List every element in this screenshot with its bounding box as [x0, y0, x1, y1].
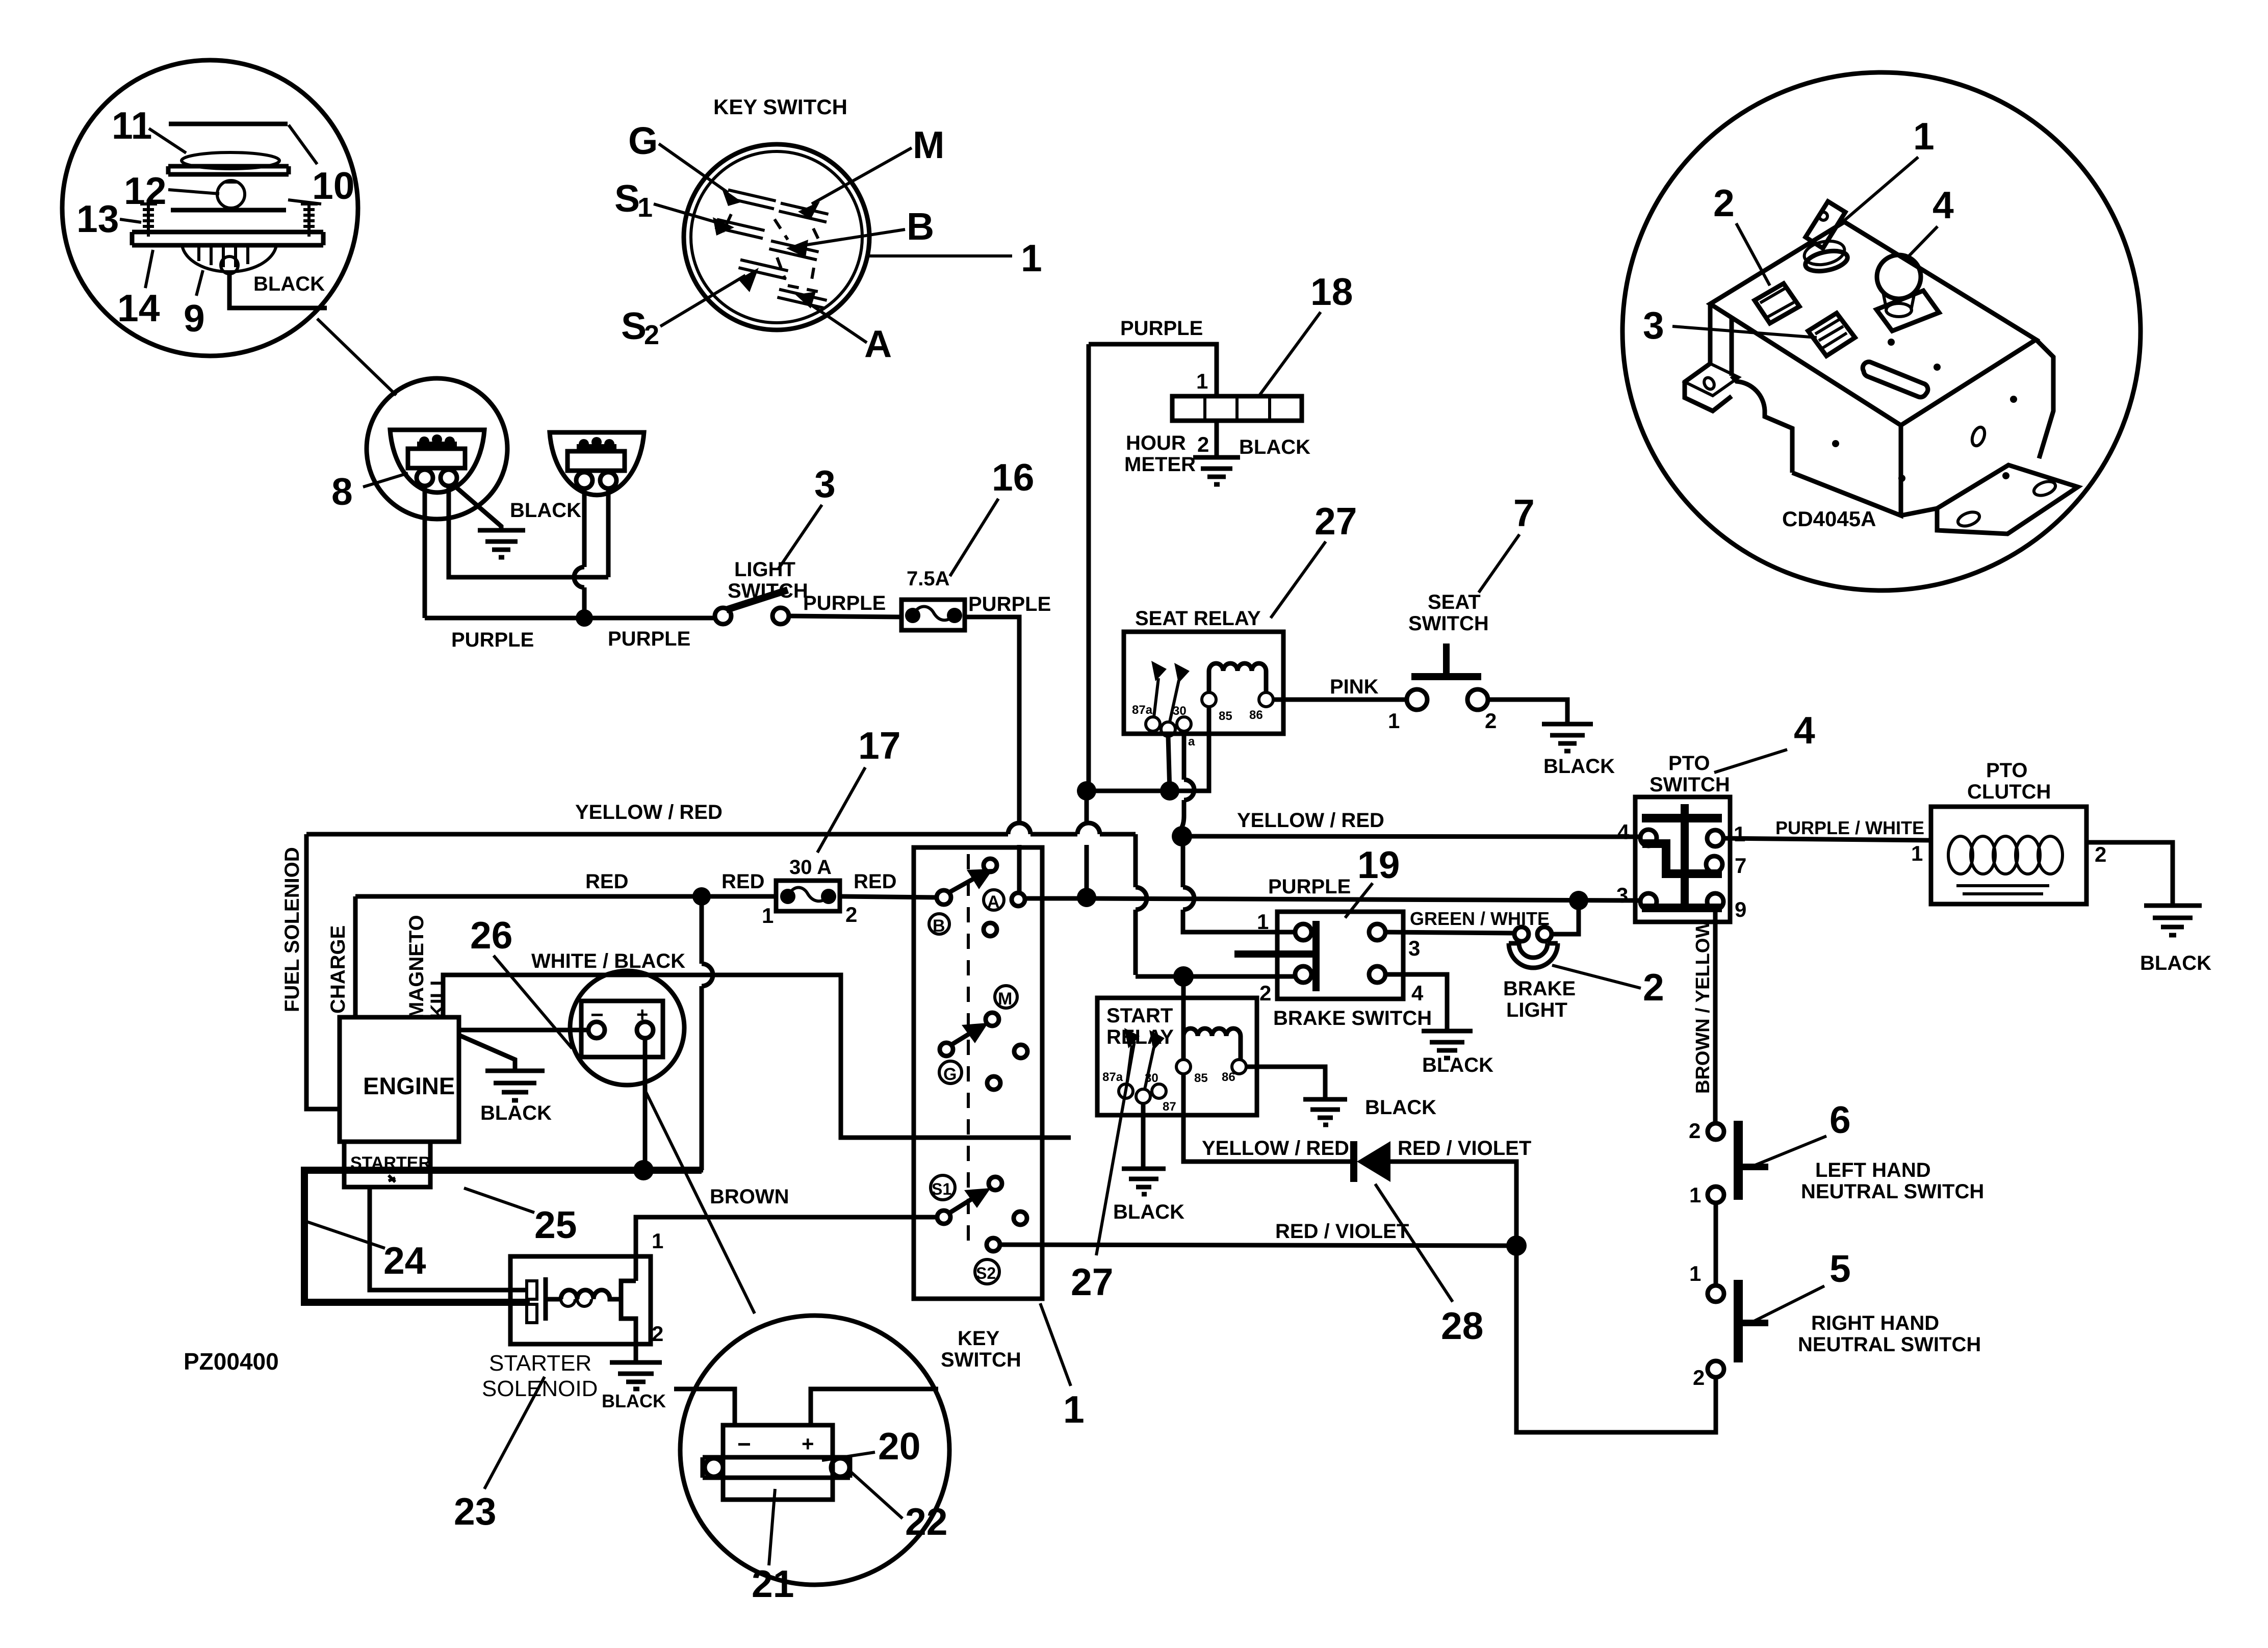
svg-text:86: 86 — [1222, 1070, 1235, 1084]
circled S1 — [931, 1175, 955, 1200]
svg-text:18: 18 — [1310, 270, 1353, 313]
svg-text:1: 1 — [1911, 841, 1923, 865]
circled B — [929, 914, 949, 934]
svg-text:BLACK: BLACK — [2140, 952, 2211, 974]
svg-text:4: 4 — [1411, 981, 1424, 1005]
svg-text:27: 27 — [1071, 1260, 1113, 1303]
wire brake light to purple dot — [1552, 900, 1579, 934]
circled M — [995, 986, 1017, 1008]
svg-text:30: 30 — [1173, 704, 1187, 718]
headlight 1 dome — [390, 430, 484, 493]
svg-text:PURPLE: PURPLE — [968, 593, 1051, 615]
svg-text:BROWN / YELLOW: BROWN / YELLOW — [1692, 920, 1714, 1094]
starter solenoid box — [510, 1256, 651, 1344]
fuse 17 (30 A) — [776, 881, 840, 911]
svg-text:10: 10 — [312, 164, 354, 207]
svg-text:87a: 87a — [1102, 1070, 1123, 1084]
svg-text:CLUTCH: CLUTCH — [1967, 781, 2051, 803]
svg-text:KEY: KEY — [958, 1327, 1000, 1350]
diode 28 — [1350, 1141, 1357, 1182]
junction purple / 85 — [1077, 781, 1096, 801]
seat relay coil terminals 85 86 — [1202, 692, 1216, 707]
svg-text:START: START — [1106, 1005, 1173, 1027]
wire diode to red/violet node — [1390, 1162, 1516, 1246]
headlight 2 terminals — [576, 472, 592, 488]
headlight 2 body — [568, 451, 625, 471]
svg-text:a: a — [1188, 735, 1195, 749]
svg-text:MAGNETO: MAGNETO — [405, 915, 428, 1019]
circled G — [939, 1061, 962, 1084]
circled A — [984, 890, 1004, 910]
svg-text:PURPLE: PURPLE — [1268, 875, 1351, 898]
svg-text:1: 1 — [1257, 910, 1269, 934]
red wire: charge to fuse 17 to key switch B — [355, 894, 776, 899]
svg-text:KILL: KILL — [427, 973, 449, 1019]
wire: headlight2 left terminal to junction (hops interconnect) — [574, 488, 584, 618]
contact right of S1 — [1014, 1212, 1027, 1225]
junction: bus east node — [1172, 826, 1192, 846]
svg-text:7: 7 — [1735, 854, 1746, 878]
red wire down from junction (hops white/black) — [702, 896, 713, 1170]
svg-text:2: 2 — [1485, 709, 1497, 733]
seat relay contacts 87a 30 — [1146, 717, 1160, 731]
PTO switch box 4 — [1635, 797, 1730, 922]
circle around headlight 8 — [367, 378, 507, 519]
console top face — [1710, 222, 2036, 425]
purple vertical (hour meter to A-line) — [1087, 344, 1089, 895]
svg-text:BROWN: BROWN — [710, 1186, 789, 1208]
svg-text:85: 85 — [1194, 1071, 1208, 1085]
brake switch plunger — [1312, 921, 1320, 991]
wire: fuse output down to key switch A — [965, 617, 1019, 893]
svg-text:SWITCH: SWITCH — [941, 1349, 1021, 1371]
svg-text:1: 1 — [1021, 237, 1042, 279]
fuse 16 (7.5A) — [901, 600, 965, 630]
console key — [1806, 201, 1845, 248]
contact right of M — [1014, 1045, 1027, 1058]
wire 86 to seat switch — [1273, 698, 1406, 702]
svg-text:25: 25 — [534, 1203, 577, 1246]
svg-text:RED: RED — [854, 870, 896, 893]
brake switch box 19 — [1277, 912, 1403, 999]
svg-text:1: 1 — [652, 1229, 663, 1253]
svg-text:BLACK: BLACK — [1239, 436, 1310, 458]
svg-text:SEAT: SEAT — [1428, 591, 1481, 613]
key switch internal divider — [914, 1136, 1071, 1140]
seat relay coil — [1209, 663, 1266, 692]
svg-text:85: 85 — [1219, 709, 1232, 723]
svg-text:S: S — [614, 177, 640, 220]
svg-text:B: B — [933, 916, 945, 936]
svg-text:3: 3 — [814, 462, 836, 505]
svg-text:5: 5 — [1829, 1247, 1851, 1290]
junction 30 / 85 line — [1160, 781, 1179, 801]
wire: lamp interconnect (grounded side) — [449, 486, 608, 577]
svg-text:PURPLE: PURPLE — [608, 628, 690, 650]
wire A to purple junction — [1025, 896, 1087, 901]
ground (seat switch) — [1542, 724, 1593, 751]
wire battery plus down to junction — [643, 1038, 648, 1170]
svg-text:BLACK: BLACK — [1422, 1054, 1493, 1076]
svg-text:B: B — [907, 205, 934, 248]
svg-text:87: 87 — [1163, 1100, 1176, 1114]
svg-text:HOUR: HOUR — [1126, 432, 1186, 454]
console slot 3 (switch) — [1808, 313, 1855, 356]
svg-text:12: 12 — [124, 169, 166, 212]
svg-text:G: G — [943, 1065, 957, 1084]
key switch box — [914, 847, 1042, 1299]
svg-text:LEFT HAND: LEFT HAND — [1815, 1159, 1931, 1181]
svg-text:BRAKE SWITCH: BRAKE SWITCH — [1273, 1007, 1432, 1029]
leader 1 (key switch box) — [1040, 1303, 1071, 1386]
svg-text:BLACK: BLACK — [253, 273, 325, 295]
wire: switch to fuse — [789, 616, 901, 617]
wire seat switch to ground — [1488, 700, 1567, 724]
blade S1 — [715, 219, 764, 238]
svg-text:M: M — [998, 989, 1012, 1009]
wire between neutral switches — [1714, 1203, 1718, 1285]
svg-text:RED / VIOLET: RED / VIOLET — [1398, 1137, 1531, 1160]
detail circle: headlight assembly callout — [62, 60, 358, 356]
svg-text:YELLOW / RED: YELLOW / RED — [575, 801, 723, 823]
PTO switch lever — [1642, 814, 1722, 822]
svg-text:1: 1 — [1734, 822, 1745, 846]
leader 3 — [779, 505, 822, 569]
key switch detail circle — [684, 144, 869, 330]
wire 30 to ground — [1141, 1103, 1146, 1169]
console slot 2 — [1755, 284, 1799, 323]
junction purple / brake light — [1569, 891, 1588, 910]
blade M — [779, 203, 828, 222]
headlight 2 dome — [550, 432, 644, 495]
lens ellipse — [182, 152, 279, 169]
svg-text:2: 2 — [845, 903, 857, 926]
solenoid plunger — [546, 1277, 561, 1321]
svg-text:PURPLE / WHITE: PURPLE / WHITE — [1775, 817, 1924, 838]
svg-text:BLACK: BLACK — [1543, 755, 1615, 778]
svg-text:BLACK: BLACK — [602, 1390, 666, 1411]
svg-text:21: 21 — [752, 1562, 794, 1605]
wire node down and to right neutral switch 2 — [1516, 1246, 1716, 1432]
wire: bus node down to brake switch 1 (hops purple A-line) — [1183, 836, 1295, 932]
svg-text:28: 28 — [1441, 1304, 1483, 1347]
start relay contacts — [1119, 1084, 1133, 1098]
svg-text:STARTER: STARTER — [489, 1351, 591, 1376]
circled S2 — [975, 1259, 999, 1284]
wire brake2 line — [1136, 974, 1295, 979]
svg-text:A: A — [864, 322, 892, 365]
hour meter 18 — [1172, 396, 1302, 421]
svg-text:7.5A: 7.5A — [907, 568, 950, 590]
svg-text:2: 2 — [2095, 842, 2106, 866]
wire hour meter to ground — [1215, 421, 1219, 457]
wire: headlight1 ground diagonal — [453, 484, 501, 530]
wire: purple to light switch — [425, 616, 715, 621]
engine box — [340, 1017, 459, 1142]
white/black wire (magneto kill) — [443, 975, 914, 1138]
S2 contact — [987, 1238, 1000, 1251]
svg-text:20: 20 — [878, 1425, 920, 1467]
wire brake2 node down through relay to coil 85 — [1181, 976, 1186, 1060]
svg-text:S2: S2 — [976, 1264, 996, 1282]
svg-text:PURPLE: PURPLE — [451, 629, 534, 651]
clutch coil — [1948, 836, 1973, 874]
M arrow contact — [940, 1043, 953, 1056]
wire contact a down to bus (hops 85 line) — [1182, 731, 1194, 836]
headlight 2 coil bumps — [579, 439, 589, 449]
svg-text:ENGINE: ENGINE — [363, 1072, 455, 1099]
blade S2 — [738, 260, 788, 278]
svg-text:11: 11 — [112, 104, 152, 147]
svg-text:17: 17 — [858, 724, 900, 767]
ground (brake switch) — [1422, 1031, 1473, 1058]
junction red — [692, 887, 711, 906]
brake switch terminals — [1295, 924, 1311, 940]
left hand neutral switch 6 — [1734, 1121, 1743, 1200]
battery detail circle — [680, 1316, 949, 1585]
svg-text:19: 19 — [1357, 843, 1400, 886]
bracket (item 14) — [132, 232, 323, 245]
key switch rotor dashed line — [967, 854, 970, 1244]
ground (engine) — [485, 1071, 545, 1100]
svg-text:9: 9 — [184, 297, 205, 340]
svg-text:YELLOW / RED: YELLOW / RED — [1237, 809, 1384, 832]
svg-text:1: 1 — [1689, 1261, 1701, 1285]
start relay box — [1097, 998, 1257, 1115]
svg-text:1: 1 — [1388, 709, 1400, 733]
svg-text:BLACK: BLACK — [1113, 1201, 1184, 1223]
svg-text:1: 1 — [1913, 115, 1935, 158]
svg-text:YELLOW / RED: YELLOW / RED — [1202, 1137, 1349, 1160]
console knob 4 — [1877, 255, 1921, 299]
svg-text:WHITE / BLACK: WHITE / BLACK — [531, 950, 685, 972]
solenoid terminals — [527, 1281, 537, 1299]
svg-text:26: 26 — [470, 914, 512, 957]
red vertical joins battery junction line — [702, 1168, 703, 1173]
leader 16 — [950, 499, 998, 576]
solenoid coil — [561, 1290, 621, 1299]
battery cable (25) to starter solenoid — [304, 1170, 702, 1302]
leader 8 — [363, 473, 408, 487]
leader from lens line to item 10 area — [289, 125, 317, 164]
svg-text:24: 24 — [383, 1239, 426, 1282]
svg-text:CHARGE: CHARGE — [327, 925, 349, 1014]
svg-text:27: 27 — [1315, 500, 1357, 543]
lamp socket (item 9) — [182, 245, 276, 272]
battery circle 26 — [570, 971, 684, 1085]
label MAGNETO KILL — [405, 915, 428, 1019]
wire brake 3 to brake light — [1385, 932, 1513, 933]
blade A — [777, 289, 827, 308]
mounting plate line (item 10) — [171, 208, 286, 213]
svg-text:KEY SWITCH: KEY SWITCH — [713, 95, 847, 119]
console screw dots — [1888, 339, 1895, 346]
svg-text:BLACK: BLACK — [510, 499, 581, 522]
svg-text:16: 16 — [992, 456, 1034, 499]
svg-text:GREEN / WHITE: GREEN / WHITE — [1410, 908, 1550, 929]
svg-text:FUEL SOLENIOD: FUEL SOLENIOD — [281, 847, 303, 1012]
headlight 1 body — [408, 449, 465, 468]
junction red/violet — [1506, 1235, 1527, 1256]
starter to solenoid wire — [370, 1187, 527, 1290]
wire 85 riser to yellow/red diode line — [1183, 1074, 1352, 1162]
purple A-line east (hops two verticals) — [1087, 898, 1641, 900]
wire: headlight1 left terminal down to purple — [423, 486, 427, 618]
svg-text:G: G — [628, 119, 658, 162]
contact below M — [987, 1076, 1000, 1090]
svg-text:SWITCH: SWITCH — [1650, 774, 1730, 796]
leader from detail circle to headlight — [317, 319, 396, 395]
console right foot — [1937, 465, 2078, 534]
screw right — [301, 204, 318, 237]
svg-text:BLACK: BLACK — [1365, 1096, 1436, 1119]
socket terminal — [221, 256, 238, 274]
battery terminals — [588, 1022, 605, 1038]
svg-text:3: 3 — [1616, 883, 1628, 907]
svg-text:SWITCH: SWITCH — [1408, 612, 1489, 635]
junction brake2/start relay — [1173, 966, 1194, 987]
battery box — [581, 1001, 663, 1057]
contact below A — [984, 923, 997, 936]
wire fuse to key switch B — [840, 896, 937, 897]
svg-text:2: 2 — [652, 1322, 663, 1346]
svg-text:2: 2 — [1689, 1119, 1700, 1143]
battery 20 — [723, 1425, 833, 1500]
svg-text:+: + — [802, 1432, 814, 1456]
svg-text:PTO: PTO — [1668, 752, 1710, 775]
svg-text:4: 4 — [1794, 709, 1815, 752]
svg-text:2: 2 — [1713, 182, 1735, 224]
PTO switch bottom bar — [1642, 904, 1722, 912]
svg-text:RELAY: RELAY — [1106, 1026, 1174, 1048]
svg-text:6: 6 — [1829, 1098, 1851, 1141]
svg-text:RED: RED — [585, 870, 628, 893]
hold-down strap 21 — [703, 1457, 850, 1478]
rotor dashed lines — [723, 214, 820, 292]
svg-text:2: 2 — [1643, 966, 1664, 1009]
svg-text:30 A: 30 A — [789, 856, 832, 879]
svg-text:1: 1 — [1063, 1388, 1085, 1431]
ground (solenoid) — [610, 1362, 662, 1389]
terminal B contact — [937, 890, 951, 905]
svg-text:1: 1 — [1689, 1183, 1701, 1207]
red/violet wire from key switch S2 — [1000, 1245, 1516, 1246]
headlight 1 terminals — [417, 470, 433, 486]
leader 1 (key switch detail) — [869, 254, 1012, 257]
svg-text:30: 30 — [1145, 1071, 1158, 1085]
svg-text:PINK: PINK — [1330, 676, 1379, 698]
svg-text:BRAKE: BRAKE — [1503, 977, 1576, 1000]
yellow/red bus (left section) — [306, 823, 1136, 834]
console front face outline — [1685, 304, 1901, 516]
wire clutch to ground — [2086, 842, 2173, 906]
svg-text:CD4045A: CD4045A — [1782, 507, 1876, 531]
svg-text:SWITCH: SWITCH — [728, 580, 808, 602]
wire into battery minus — [674, 1389, 735, 1425]
screw 13 left — [140, 204, 157, 237]
right hand neutral switch 5 — [1734, 1280, 1743, 1362]
svg-text:8: 8 — [331, 470, 353, 513]
svg-text:1: 1 — [637, 192, 653, 223]
svg-text:S1: S1 — [932, 1180, 951, 1198]
svg-text:4: 4 — [1932, 184, 1954, 226]
ground (start relay 86) — [1303, 1099, 1347, 1125]
svg-text:LIGHT: LIGHT — [734, 558, 795, 581]
junction battery plus — [633, 1160, 654, 1180]
label CHARGE — [327, 925, 349, 1014]
svg-text:87a: 87a — [1132, 703, 1153, 717]
purple net: corner to hour meter — [1089, 344, 1217, 396]
brown wire: key switch S1 to solenoid coil — [636, 1217, 937, 1256]
svg-text:2: 2 — [1197, 432, 1209, 456]
svg-text:2: 2 — [1259, 981, 1271, 1005]
wire engine to battery minus — [459, 1028, 586, 1033]
svg-text:13: 13 — [76, 197, 119, 240]
start relay coil terminals — [1176, 1060, 1191, 1074]
svg-text:NEUTRAL SWITCH: NEUTRAL SWITCH — [1798, 1333, 1981, 1356]
CD4045A detail circle — [1622, 72, 2141, 590]
brown/yellow wire PTO 9 down — [1713, 910, 1718, 1124]
console knob plate — [1876, 291, 1939, 331]
yellow/red bus (east section to PTO) — [1182, 836, 1641, 837]
svg-text:14: 14 — [117, 287, 160, 329]
svg-text:9: 9 — [1735, 897, 1746, 921]
svg-text:A: A — [987, 892, 1000, 912]
junction: purple node — [576, 609, 593, 627]
svg-text:4: 4 — [1617, 820, 1630, 844]
wire brake 4 to ground — [1385, 974, 1447, 1031]
terminal A contact — [1012, 893, 1025, 906]
svg-text:PZ00400: PZ00400 — [184, 1348, 279, 1375]
svg-text:2: 2 — [1693, 1366, 1705, 1389]
M contact circle — [986, 1013, 999, 1026]
fuel solenoid wire (bus left end down to engine) — [306, 834, 340, 1109]
console left foot — [1685, 364, 1739, 396]
svg-text:METER: METER — [1124, 453, 1196, 476]
svg-text:PTO: PTO — [1986, 759, 2028, 782]
reflector bar — [168, 166, 289, 174]
svg-text:PURPLE: PURPLE — [803, 592, 886, 614]
wire from socket terminal — [229, 274, 327, 308]
svg-text:2: 2 — [644, 320, 659, 350]
svg-text:3: 3 — [1643, 304, 1664, 347]
label FUEL SOLENIOD — [281, 847, 303, 1012]
seat switch 7 — [1407, 689, 1427, 710]
svg-text:7: 7 — [1513, 492, 1535, 534]
console right face — [1901, 340, 2053, 516]
svg-text:23: 23 — [454, 1490, 496, 1533]
svg-text:M: M — [913, 123, 944, 166]
lens cover line (item 11) — [169, 122, 288, 126]
PTO terminals — [1640, 830, 1657, 846]
start relay coil — [1183, 1028, 1241, 1060]
wire contact 30 down — [1168, 736, 1170, 791]
svg-text:S: S — [621, 304, 647, 347]
charge wire — [353, 896, 358, 1017]
strap bolts 22 — [705, 1458, 723, 1477]
PTO clutch box — [1931, 807, 2086, 904]
svg-text:86: 86 — [1249, 708, 1263, 722]
ground (hour meter) — [1193, 457, 1240, 484]
ground (clutch) — [2144, 906, 2202, 935]
console long slot — [1863, 362, 1928, 397]
svg-text:NEUTRAL SWITCH: NEUTRAL SWITCH — [1801, 1180, 1984, 1203]
PTO switch step contact — [1642, 839, 1722, 878]
starter box — [344, 1142, 430, 1187]
light switch 3 — [715, 608, 731, 624]
label BROWN / YELLOW — [1692, 920, 1714, 1094]
svg-text:BLACK: BLACK — [480, 1102, 552, 1124]
